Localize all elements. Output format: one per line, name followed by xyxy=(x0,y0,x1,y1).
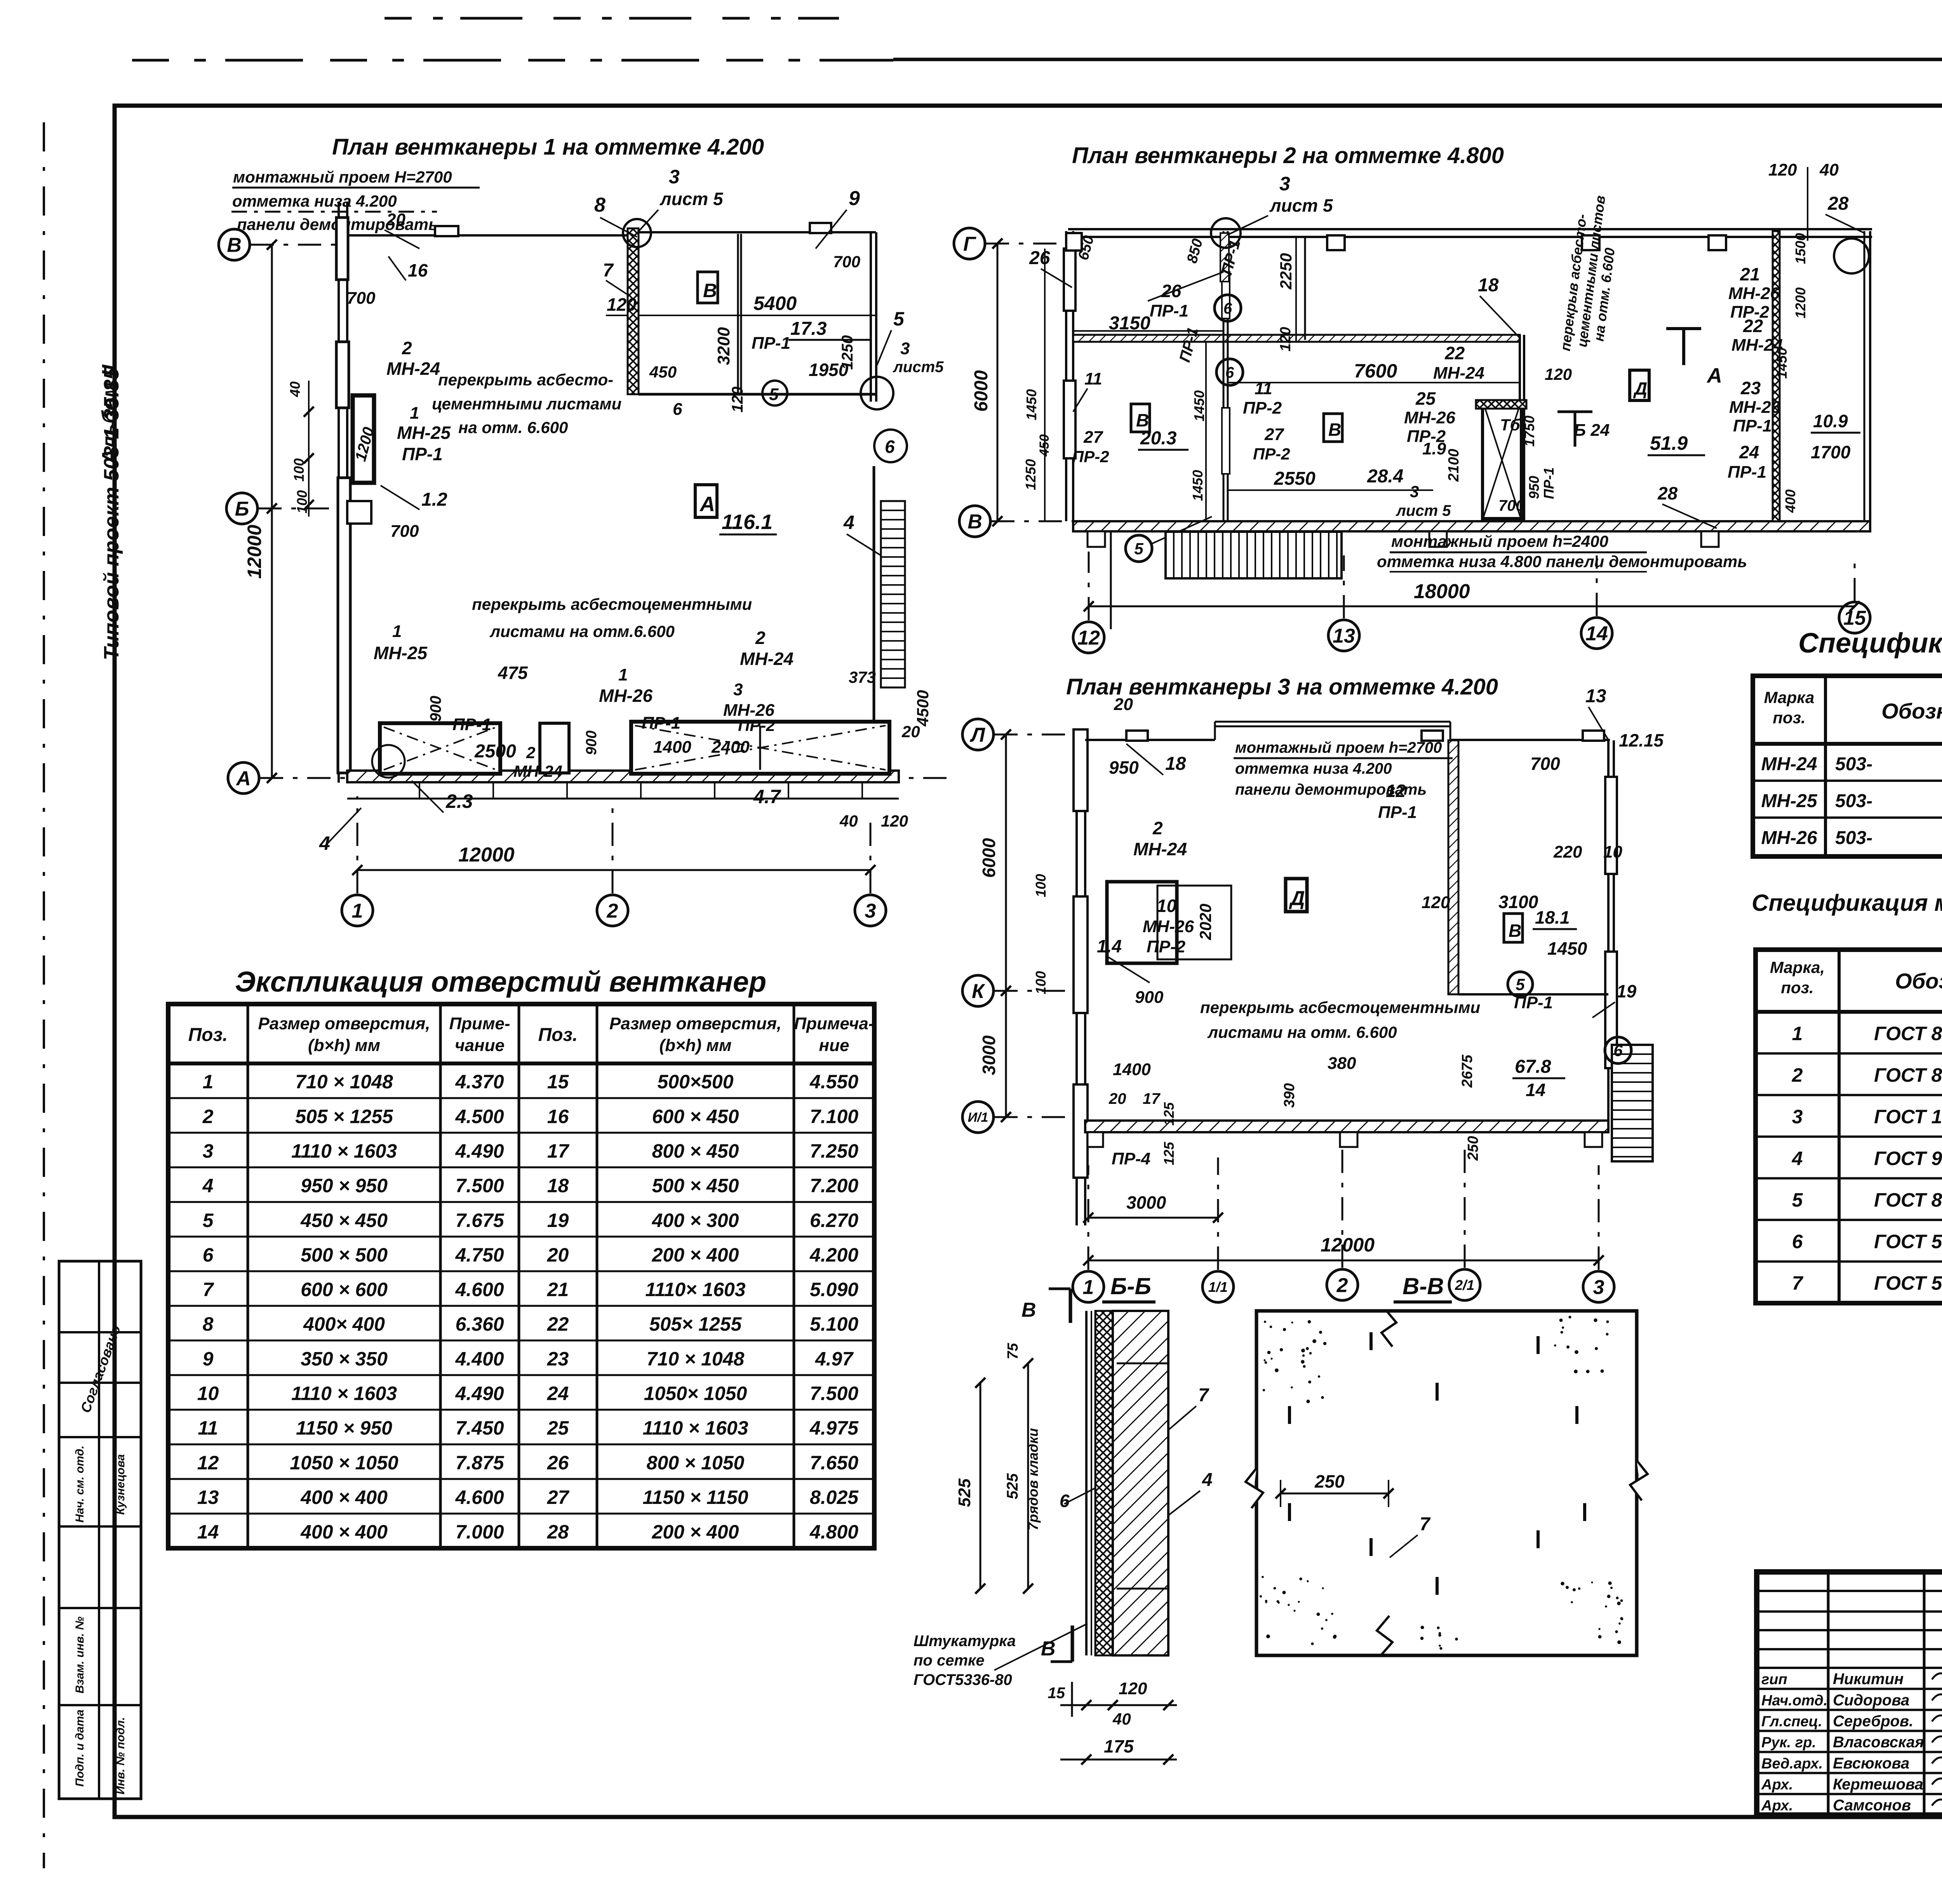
svg-text:7: 7 xyxy=(1792,1272,1804,1294)
svg-text:1150 × 1150: 1150 × 1150 xyxy=(642,1486,748,1508)
svg-text:ПР-1: ПР-1 xyxy=(642,714,680,733)
svg-text:лист 5: лист 5 xyxy=(1269,195,1333,216)
svg-text:5: 5 xyxy=(1792,1189,1803,1211)
svg-text:монтажный проем h=2700: монтажный проем h=2700 xyxy=(1235,739,1442,756)
svg-text:3: 3 xyxy=(669,166,680,188)
svg-text:100: 100 xyxy=(1033,874,1049,897)
svg-text:В-В: В-В xyxy=(1403,1273,1444,1299)
svg-text:Евсюкова: Евсюкова xyxy=(1833,1755,1909,1772)
svg-text:12000: 12000 xyxy=(458,844,515,866)
svg-text:ПР-4: ПР-4 xyxy=(1112,1149,1150,1168)
svg-text:В: В xyxy=(1136,410,1149,430)
svg-text:1250: 1250 xyxy=(839,335,856,370)
svg-text:17: 17 xyxy=(1143,1090,1161,1107)
svg-text:Поз.: Поз. xyxy=(188,1025,228,1045)
svg-text:17: 17 xyxy=(547,1140,570,1162)
svg-text:700: 700 xyxy=(347,289,376,308)
svg-text:24: 24 xyxy=(1739,442,1759,462)
svg-text:7.200: 7.200 xyxy=(810,1175,858,1197)
svg-text:МН-25: МН-25 xyxy=(374,643,428,663)
svg-text:Приме-: Приме- xyxy=(449,1014,510,1033)
svg-text:1450: 1450 xyxy=(1190,470,1206,501)
svg-text:22: 22 xyxy=(1743,316,1763,336)
svg-text:6000: 6000 xyxy=(971,370,992,412)
svg-text:МН-24: МН-24 xyxy=(1761,754,1817,774)
svg-text:75: 75 xyxy=(1005,1343,1021,1359)
svg-text:3: 3 xyxy=(900,339,910,358)
svg-text:Вед.арх.: Вед.арх. xyxy=(1761,1756,1823,1772)
svg-text:525: 525 xyxy=(955,1478,974,1507)
svg-text:1050× 1050: 1050× 1050 xyxy=(644,1382,747,1404)
svg-text:ПР-2: ПР-2 xyxy=(1243,399,1282,418)
svg-text:2: 2 xyxy=(1792,1064,1803,1086)
svg-text:А: А xyxy=(699,493,715,516)
svg-text:2500: 2500 xyxy=(474,741,516,762)
svg-text:380: 380 xyxy=(1328,1054,1356,1073)
svg-text:лист 5: лист 5 xyxy=(660,189,724,209)
svg-text:2: 2 xyxy=(1152,818,1163,838)
svg-text:14: 14 xyxy=(197,1521,219,1543)
svg-text:(b×h) мм: (b×h) мм xyxy=(308,1036,380,1055)
svg-text:лист5: лист5 xyxy=(893,359,944,376)
svg-text:6: 6 xyxy=(1613,1041,1623,1060)
svg-text:12000: 12000 xyxy=(1321,1234,1375,1256)
svg-text:1/1: 1/1 xyxy=(1208,1279,1228,1295)
svg-text:505 × 1255: 505 × 1255 xyxy=(295,1105,393,1127)
svg-text:2: 2 xyxy=(202,1105,214,1127)
svg-text:20: 20 xyxy=(547,1244,569,1266)
svg-text:МН-24: МН-24 xyxy=(513,762,562,780)
svg-text:монтажный проем Н=2700: монтажный проем Н=2700 xyxy=(233,168,452,186)
svg-text:(b×h) мм: (b×h) мм xyxy=(659,1036,731,1055)
svg-text:План вентканеры 1 на отметке: План вентканеры 1 на отметке 4.200 xyxy=(332,134,764,160)
svg-text:503-: 503- xyxy=(1835,791,1872,811)
svg-text:1150 × 950: 1150 × 950 xyxy=(296,1417,392,1439)
svg-text:МН-25: МН-25 xyxy=(397,423,451,443)
svg-text:1: 1 xyxy=(203,1071,214,1093)
svg-text:1: 1 xyxy=(618,665,628,684)
svg-text:1.4: 1.4 xyxy=(1097,936,1122,956)
svg-text:4.490: 4.490 xyxy=(455,1382,504,1404)
svg-text:5: 5 xyxy=(893,308,905,330)
svg-text:14: 14 xyxy=(1526,1080,1545,1100)
svg-text:1: 1 xyxy=(352,900,363,922)
svg-text:Тб: Тб xyxy=(1500,416,1521,434)
svg-text:25: 25 xyxy=(547,1417,569,1439)
svg-text:10: 10 xyxy=(197,1382,219,1404)
svg-text:28: 28 xyxy=(1657,483,1678,503)
svg-text:9: 9 xyxy=(849,187,860,210)
svg-text:4: 4 xyxy=(202,1175,214,1197)
svg-text:13: 13 xyxy=(1585,686,1606,707)
svg-text:6: 6 xyxy=(1225,364,1234,381)
svg-text:В: В xyxy=(968,511,982,533)
svg-text:Марка,: Марка, xyxy=(1770,958,1825,976)
svg-text:20.3: 20.3 xyxy=(1140,428,1177,449)
svg-text:чание: чание xyxy=(455,1036,505,1055)
svg-text:МН-26: МН-26 xyxy=(1728,284,1780,303)
svg-text:7.450: 7.450 xyxy=(455,1417,504,1439)
svg-text:Л: Л xyxy=(969,724,985,747)
svg-text:710 × 1048: 710 × 1048 xyxy=(295,1071,393,1093)
svg-text:4: 4 xyxy=(1792,1147,1803,1169)
svg-text:1: 1 xyxy=(1083,1276,1094,1299)
svg-text:МН-24: МН-24 xyxy=(386,359,440,379)
svg-text:400 × 400: 400 × 400 xyxy=(300,1486,388,1508)
svg-text:Б-Б: Б-Б xyxy=(1110,1273,1151,1299)
svg-text:125: 125 xyxy=(1161,1142,1177,1165)
svg-text:ПР-1: ПР-1 xyxy=(1514,993,1553,1012)
svg-text:Самсонов: Самсонов xyxy=(1833,1797,1911,1814)
svg-text:950: 950 xyxy=(1526,476,1542,499)
svg-text:4.975: 4.975 xyxy=(809,1417,859,1439)
svg-text:710 × 1048: 710 × 1048 xyxy=(647,1348,745,1370)
svg-text:отметка низа 4.200: отметка низа 4.200 xyxy=(232,192,397,210)
svg-text:18: 18 xyxy=(1165,754,1186,774)
svg-text:525: 525 xyxy=(1004,1473,1021,1499)
svg-text:20: 20 xyxy=(386,210,405,229)
svg-text:Типовой проект 503-1-35.85: Типовой проект 503-1-35.85 xyxy=(100,367,123,660)
svg-text:монтажный проем h=2400: монтажный проем h=2400 xyxy=(1391,532,1608,550)
svg-text:Б: Б xyxy=(235,498,249,520)
svg-text:4500: 4500 xyxy=(914,690,932,727)
svg-text:505× 1255: 505× 1255 xyxy=(649,1313,742,1335)
svg-text:5: 5 xyxy=(1516,975,1525,994)
svg-text:перекрыть асбестоцементными: перекрыть асбестоцементными xyxy=(1200,998,1480,1016)
svg-text:Никитин: Никитин xyxy=(1833,1671,1904,1688)
svg-text:18: 18 xyxy=(1478,275,1499,296)
svg-text:19: 19 xyxy=(547,1210,569,1231)
svg-text:7.000: 7.000 xyxy=(455,1521,504,1543)
svg-text:МН-24: МН-24 xyxy=(740,649,794,669)
svg-text:Гл.спец.: Гл.спец. xyxy=(1761,1714,1822,1730)
svg-text:1.2: 1.2 xyxy=(421,489,447,510)
svg-text:600 × 450: 600 × 450 xyxy=(652,1105,739,1127)
svg-text:1450: 1450 xyxy=(1547,938,1587,959)
svg-text:25: 25 xyxy=(1415,388,1436,409)
svg-text:7.500: 7.500 xyxy=(810,1382,858,1404)
svg-text:27: 27 xyxy=(547,1486,570,1508)
svg-text:5.100: 5.100 xyxy=(810,1313,858,1335)
svg-text:600 × 600: 600 × 600 xyxy=(301,1279,388,1300)
svg-text:700: 700 xyxy=(1530,754,1560,774)
svg-text:1110 × 1603: 1110 × 1603 xyxy=(291,1382,397,1404)
svg-text:13: 13 xyxy=(197,1486,219,1508)
svg-text:18: 18 xyxy=(547,1175,569,1197)
svg-text:11: 11 xyxy=(1084,369,1102,388)
svg-text:67.8: 67.8 xyxy=(1515,1056,1551,1077)
svg-text:МН-26: МН-26 xyxy=(1761,828,1817,848)
svg-text:503-: 503- xyxy=(1835,828,1872,848)
svg-text:В: В xyxy=(1021,1299,1036,1321)
svg-text:отметка низа 4.200: отметка низа 4.200 xyxy=(1235,760,1392,777)
svg-text:Рук. гр.: Рук. гр. xyxy=(1761,1735,1816,1751)
svg-text:2020: 2020 xyxy=(1196,904,1215,940)
svg-text:5400: 5400 xyxy=(753,292,797,314)
svg-text:400 × 300: 400 × 300 xyxy=(652,1210,739,1231)
svg-text:800 × 450: 800 × 450 xyxy=(652,1140,739,1162)
svg-text:1110 × 1603: 1110 × 1603 xyxy=(642,1417,748,1439)
svg-text:ПР-1: ПР-1 xyxy=(752,334,790,353)
svg-text:175: 175 xyxy=(1104,1736,1134,1756)
svg-text:3: 3 xyxy=(1593,1276,1604,1299)
svg-text:15: 15 xyxy=(1843,607,1866,630)
svg-text:2: 2 xyxy=(755,628,766,648)
svg-text:4.97: 4.97 xyxy=(815,1348,854,1370)
svg-text:10.9: 10.9 xyxy=(1813,411,1848,431)
svg-text:3: 3 xyxy=(1792,1106,1803,1128)
svg-text:200 × 400: 200 × 400 xyxy=(652,1521,739,1543)
svg-text:450 × 450: 450 × 450 xyxy=(300,1210,388,1231)
svg-text:Инв. № подл.: Инв. № подл. xyxy=(114,1717,127,1794)
svg-text:20: 20 xyxy=(1108,1090,1126,1107)
svg-text:Штукатурка: Штукатурка xyxy=(914,1632,1016,1650)
svg-text:листами на отм. 6.600: листами на отм. 6.600 xyxy=(1207,1023,1397,1041)
svg-text:12000: 12000 xyxy=(244,525,265,579)
svg-text:2250: 2250 xyxy=(1277,253,1295,290)
svg-text:ПР-1: ПР-1 xyxy=(1728,463,1766,482)
svg-text:7: 7 xyxy=(603,260,614,281)
svg-text:15: 15 xyxy=(1048,1685,1065,1702)
svg-text:450: 450 xyxy=(649,363,677,381)
svg-text:22: 22 xyxy=(547,1313,569,1335)
svg-text:373: 373 xyxy=(849,668,876,686)
svg-text:900: 900 xyxy=(427,696,444,722)
svg-text:ГОСТ 5336-80: ГОСТ 5336-80 xyxy=(1874,1231,1942,1253)
svg-text:7: 7 xyxy=(1198,1385,1209,1406)
svg-text:поз.: поз. xyxy=(1781,978,1813,997)
svg-text:10: 10 xyxy=(1157,896,1177,916)
svg-text:120: 120 xyxy=(729,386,746,412)
svg-text:1110× 1603: 1110× 1603 xyxy=(645,1279,745,1300)
svg-text:лист 5: лист 5 xyxy=(1396,502,1451,519)
svg-text:1110 × 1603: 1110 × 1603 xyxy=(291,1140,397,1162)
svg-text:19: 19 xyxy=(1617,981,1637,1001)
svg-text:12: 12 xyxy=(1077,627,1100,649)
svg-text:Обозначение: Обозначение xyxy=(1895,969,1942,993)
svg-text:500 × 500: 500 × 500 xyxy=(301,1244,388,1266)
svg-text:3200: 3200 xyxy=(714,327,733,365)
svg-text:ГОСТ 8509-72*: ГОСТ 8509-72* xyxy=(1874,1064,1942,1086)
svg-text:7.100: 7.100 xyxy=(810,1105,858,1127)
svg-text:23: 23 xyxy=(547,1348,569,1370)
svg-text:6: 6 xyxy=(1060,1491,1070,1511)
svg-text:перекрыть асбесто-: перекрыть асбесто- xyxy=(438,371,613,389)
svg-text:ПР-2: ПР-2 xyxy=(1072,447,1109,466)
svg-text:18000: 18000 xyxy=(1414,580,1470,603)
svg-text:2: 2 xyxy=(1336,1274,1348,1297)
svg-text:Спецификация изделий закладн: Спецификация изделий закладных xyxy=(1798,628,1942,659)
svg-text:13: 13 xyxy=(1333,625,1355,647)
svg-text:3000: 3000 xyxy=(1126,1192,1166,1213)
svg-text:7.250: 7.250 xyxy=(810,1140,858,1162)
svg-text:5: 5 xyxy=(203,1210,214,1231)
svg-text:Подп. и дата: Подп. и дата xyxy=(73,1709,86,1787)
svg-text:МН-26: МН-26 xyxy=(599,686,653,706)
svg-text:8: 8 xyxy=(594,194,606,216)
svg-text:поз.: поз. xyxy=(1773,708,1805,727)
svg-text:4.490: 4.490 xyxy=(455,1140,504,1162)
svg-text:5.090: 5.090 xyxy=(810,1279,858,1300)
svg-text:ГОСТ5336-80: ГОСТ5336-80 xyxy=(914,1671,1012,1688)
svg-text:1700: 1700 xyxy=(1811,442,1851,462)
svg-text:Взам. инв. №: Взам. инв. № xyxy=(73,1617,86,1693)
svg-text:2400: 2400 xyxy=(711,738,750,757)
svg-text:перекрыть асбестоцементными: перекрыть асбестоцементными xyxy=(472,595,752,613)
svg-text:23: 23 xyxy=(1740,378,1761,398)
svg-text:400: 400 xyxy=(1782,489,1798,513)
svg-text:2/1: 2/1 xyxy=(1455,1277,1474,1293)
svg-text:950: 950 xyxy=(1109,757,1139,778)
svg-text:5: 5 xyxy=(1134,540,1143,558)
svg-text:2: 2 xyxy=(607,900,618,922)
svg-text:Размер отверстия,: Размер отверстия, xyxy=(609,1014,781,1033)
svg-text:6: 6 xyxy=(203,1244,214,1266)
svg-text:ПР-1: ПР-1 xyxy=(452,715,491,734)
svg-text:12.15: 12.15 xyxy=(1619,730,1664,750)
svg-text:1200: 1200 xyxy=(1792,287,1808,318)
svg-text:7.500: 7.500 xyxy=(455,1175,504,1197)
svg-text:12: 12 xyxy=(197,1452,219,1474)
svg-text:3: 3 xyxy=(1279,173,1290,195)
svg-text:7.650: 7.650 xyxy=(810,1452,858,1474)
svg-text:17.3: 17.3 xyxy=(790,318,827,339)
svg-text:отметка низа 4.800 панели: отметка низа 4.800 панели демонтировать xyxy=(1377,552,1747,571)
svg-text:4.800: 4.800 xyxy=(809,1521,858,1543)
svg-text:100: 100 xyxy=(291,458,307,482)
svg-text:120: 120 xyxy=(1545,365,1572,383)
svg-text:Д: Д xyxy=(1289,887,1305,910)
svg-text:950 × 950: 950 × 950 xyxy=(301,1175,388,1197)
svg-text:ПР-2: ПР-2 xyxy=(1253,445,1290,463)
svg-text:цементными листами: цементными листами xyxy=(432,395,621,413)
svg-text:1400: 1400 xyxy=(653,738,691,757)
svg-text:116.1: 116.1 xyxy=(722,510,773,534)
svg-text:11: 11 xyxy=(198,1417,218,1439)
svg-text:700: 700 xyxy=(833,252,860,271)
svg-text:ГОСТ 5781-82: ГОСТ 5781-82 xyxy=(1874,1272,1942,1294)
svg-text:1: 1 xyxy=(392,622,402,641)
svg-text:4.500: 4.500 xyxy=(455,1105,504,1127)
svg-text:6.360: 6.360 xyxy=(455,1313,504,1335)
svg-text:20: 20 xyxy=(1114,695,1133,714)
svg-text:26: 26 xyxy=(547,1452,569,1474)
svg-text:1.9: 1.9 xyxy=(1422,439,1446,458)
svg-text:3: 3 xyxy=(865,900,876,922)
svg-text:МН-25: МН-25 xyxy=(1761,791,1817,811)
svg-text:ГОСТ 8509-72*: ГОСТ 8509-72* xyxy=(1874,1189,1942,1211)
svg-text:В: В xyxy=(227,234,242,257)
svg-text:6: 6 xyxy=(1223,300,1232,317)
svg-text:4.600: 4.600 xyxy=(455,1279,504,1300)
svg-text:120: 120 xyxy=(1119,1679,1147,1698)
svg-text:1750: 1750 xyxy=(1521,416,1537,447)
svg-text:200 × 400: 200 × 400 xyxy=(652,1244,739,1266)
svg-text:900: 900 xyxy=(583,731,600,755)
svg-text:В: В xyxy=(1328,419,1341,440)
svg-text:Сидорова: Сидорова xyxy=(1833,1692,1909,1709)
svg-text:21: 21 xyxy=(1740,264,1760,284)
svg-text:2100: 2100 xyxy=(1446,449,1462,482)
svg-text:МН-26: МН-26 xyxy=(723,701,775,720)
svg-text:22: 22 xyxy=(1444,343,1465,363)
svg-text:8: 8 xyxy=(203,1313,214,1335)
svg-text:1250: 1250 xyxy=(1023,459,1039,490)
svg-text:Размер отверстия,: Размер отверстия, xyxy=(258,1014,430,1033)
svg-text:2: 2 xyxy=(526,743,535,762)
svg-text:4: 4 xyxy=(1202,1470,1213,1490)
svg-text:ПР-1: ПР-1 xyxy=(1150,301,1189,320)
svg-text:ПР-2: ПР-2 xyxy=(1147,937,1186,956)
svg-text:Экспликация отверстий вентка: Экспликация отверстий вентканер xyxy=(235,966,766,998)
svg-text:А: А xyxy=(235,768,251,790)
svg-text:700: 700 xyxy=(390,522,419,541)
svg-text:Д: Д xyxy=(1633,378,1647,399)
svg-text:400 × 400: 400 × 400 xyxy=(300,1521,388,1543)
svg-text:Арх.: Арх. xyxy=(1761,1777,1793,1793)
svg-text:Арх.: Арх. xyxy=(1761,1798,1793,1814)
svg-text:2550: 2550 xyxy=(1274,468,1316,489)
svg-text:ПР-1: ПР-1 xyxy=(1541,467,1557,499)
svg-text:МН-24: МН-24 xyxy=(1133,839,1187,859)
svg-text:120: 120 xyxy=(607,294,637,315)
svg-text:МН-26: МН-26 xyxy=(1143,917,1194,936)
svg-text:11: 11 xyxy=(1255,379,1272,398)
svg-text:К: К xyxy=(972,980,985,1003)
svg-text:27: 27 xyxy=(1264,425,1284,444)
svg-text:500 × 450: 500 × 450 xyxy=(652,1175,739,1197)
svg-text:28: 28 xyxy=(1827,193,1849,214)
svg-text:Кузнецова: Кузнецова xyxy=(114,1454,127,1515)
svg-text:Спецификация материалов на: Спецификация материалов на теплоизоляцию… xyxy=(1752,890,1942,916)
svg-text:16: 16 xyxy=(547,1105,569,1127)
svg-text:100: 100 xyxy=(1033,971,1049,994)
svg-text:16: 16 xyxy=(408,260,428,280)
svg-text:14: 14 xyxy=(1585,623,1608,645)
svg-text:Б 24: Б 24 xyxy=(1574,421,1610,440)
svg-text:Власовская: Власовская xyxy=(1833,1734,1924,1751)
svg-text:40: 40 xyxy=(1819,160,1839,179)
svg-text:220: 220 xyxy=(1553,842,1582,861)
svg-text:15: 15 xyxy=(547,1071,569,1093)
svg-text:4.750: 4.750 xyxy=(455,1244,504,1266)
svg-text:2: 2 xyxy=(402,338,412,358)
svg-text:6: 6 xyxy=(885,437,895,457)
svg-text:120: 120 xyxy=(881,812,908,830)
svg-text:ПР-1: ПР-1 xyxy=(1378,803,1417,822)
svg-text:И/1: И/1 xyxy=(968,1110,988,1125)
svg-text:900: 900 xyxy=(1135,988,1164,1007)
svg-text:700: 700 xyxy=(1498,497,1524,514)
svg-text:по сетке: по сетке xyxy=(914,1652,985,1669)
svg-text:100: 100 xyxy=(294,490,310,513)
svg-text:Нач.отд.: Нач.отд. xyxy=(1761,1692,1827,1709)
svg-text:120: 120 xyxy=(1422,893,1450,912)
svg-text:План вентканеры 2 на отмет: План вентканеры 2 на отметке 4.800 xyxy=(1072,143,1504,168)
svg-text:В: В xyxy=(703,280,717,301)
svg-text:250: 250 xyxy=(1314,1471,1345,1492)
svg-text:МН-24: МН-24 xyxy=(1433,364,1484,383)
svg-text:МН-26: МН-26 xyxy=(1729,398,1781,417)
svg-text:6: 6 xyxy=(1792,1231,1803,1253)
svg-text:6.270: 6.270 xyxy=(810,1210,858,1231)
svg-text:6: 6 xyxy=(673,400,682,419)
svg-text:Марка: Марка xyxy=(1764,688,1815,707)
svg-text:ГОСТ 8509-72*: ГОСТ 8509-72* xyxy=(1874,1023,1942,1044)
svg-text:450: 450 xyxy=(1037,434,1052,457)
svg-text:18.1: 18.1 xyxy=(1535,907,1570,928)
svg-text:7: 7 xyxy=(1420,1514,1431,1535)
